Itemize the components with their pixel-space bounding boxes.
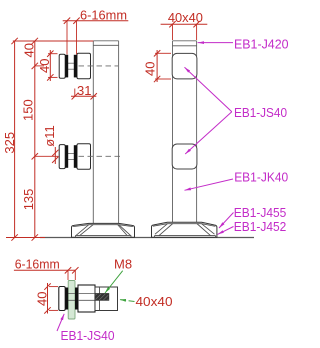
svg-text:135: 135 (21, 189, 36, 211)
clamp 2 centerline (dashed) (79, 155, 122, 157)
ground extension line red left (6, 237, 45, 239)
svg-text:EB1-JS40: EB1-JS40 (61, 328, 115, 343)
dim 40x40 line (161, 23, 208, 25)
dim 6-16mm (bottom) tick right (72, 267, 78, 273)
extension line glass right (76, 21, 78, 55)
dim 31 line (71, 95, 96, 97)
clamp 2 body (77, 144, 91, 170)
dim 40 (bottom) line (47, 283, 49, 314)
ext glass left (bottom) (67, 270, 69, 280)
base left outer (EB1-J452 cover side view) (72, 223, 135, 237)
extension line post top (13, 40, 94, 42)
dim 325 tick top (11, 38, 17, 44)
clamp 1 plate (59, 54, 65, 78)
dim o11 line (54, 147, 56, 164)
dim 40 plate tick top (47, 51, 53, 57)
clamp square 1 (front) (172, 53, 197, 79)
leader EB1-JK40 (185, 179, 234, 190)
dim 6-16mm (bottom) line (14, 269, 75, 271)
clamp 1 gasket right (74, 55, 77, 78)
dim 6-16mm (bottom) tick left (65, 267, 71, 273)
clamp 2 gasket right (74, 145, 77, 168)
base right inner lines (155, 224, 216, 238)
leader EB1-J420 (198, 42, 233, 44)
svg-text:EB1-JK40: EB1-JK40 (234, 170, 288, 185)
dim 40/150 tick mid (32, 63, 38, 69)
base left cover inner parallel (73, 225, 133, 227)
svg-text:6-16mm: 6-16mm (15, 256, 60, 271)
base right cover inner parallel (153, 224, 215, 227)
post right cap line (173, 45, 197, 47)
dim 40 right tick bottom (154, 76, 160, 82)
dim 31 tick right (91, 93, 97, 99)
dim 325 line (14, 41, 16, 238)
post right (front view) (173, 41, 197, 223)
glass pane (top view) (68, 281, 75, 320)
svg-text:40: 40 (37, 59, 52, 73)
dim 40 (bottom) ext top (49, 286, 58, 288)
svg-text:EB1-J420: EB1-J420 (234, 36, 289, 51)
base left inner lines (76, 225, 132, 238)
post left (side view) EB1-JK40 (93, 41, 118, 224)
dim 150 tick bottom (32, 153, 38, 159)
gasket right (top view) (75, 288, 78, 310)
dim 31 ext left (74, 89, 76, 97)
dim 40 right post line (156, 50, 158, 82)
dim 135 line (34, 156, 36, 237)
dim 40x40 ext right (196, 24, 198, 40)
dim 40 right ext bottom (155, 78, 171, 80)
clamp 1 gasket left (65, 55, 68, 78)
dim 40 right ext top (155, 52, 171, 54)
clamp plate (top view) (59, 287, 65, 311)
svg-text:EB1-J455: EB1-J455 (234, 205, 286, 220)
dim 40 clamp plate line (49, 50, 51, 81)
dim 40 plate tick bottom (47, 74, 53, 80)
leader EB1-J452 (218, 227, 234, 235)
svg-text:40: 40 (34, 292, 49, 306)
svg-text:31: 31 (77, 83, 91, 98)
extension clamp2 center (35, 155, 59, 157)
dim 40 (bottom) tick top (44, 283, 50, 289)
svg-text:40: 40 (22, 43, 37, 57)
clamp 2 bolt lines (65, 153, 77, 155)
svg-text:150: 150 (21, 99, 36, 121)
dim 40x40 ext left (172, 24, 174, 40)
M8 bolt hatched (95, 294, 109, 301)
leader M8 (green) (105, 271, 123, 293)
post left cap line EB1-J420 (93, 44, 118, 46)
svg-text:40x40: 40x40 (136, 294, 173, 309)
svg-text:M8: M8 (114, 257, 132, 272)
dim 40 plate ext top (48, 53, 58, 55)
dim 40x40 tick right (193, 21, 199, 27)
clamp 2 gasket left (65, 145, 68, 168)
clamp 1 bolt lines (65, 62, 77, 64)
dim 135 tick bottom (32, 234, 38, 240)
clamp 1 body (77, 53, 91, 79)
clamp 2 plate (59, 145, 65, 169)
bolt lines (top view) (62, 293, 95, 295)
svg-text:EB1-JS40: EB1-JS40 (234, 105, 287, 120)
clamp square 2 (front) (172, 144, 197, 169)
dim 40 tick top (32, 38, 38, 44)
dim 6-16mm tick right (73, 18, 79, 24)
ext glass right (bottom) (74, 270, 76, 280)
dim o11 tick bottom (52, 157, 58, 163)
dim 40 (bottom) tick bottom (44, 307, 50, 313)
dim o11 tick top (52, 150, 58, 156)
leader 40x40 (green) (120, 300, 135, 302)
gasket left (top view) (65, 288, 68, 310)
dim 40 right tick top (154, 50, 160, 56)
svg-text:40: 40 (143, 62, 158, 76)
leader EB1-JS40 (bottom) (57, 314, 64, 331)
dim 325 tick bottom (11, 234, 17, 240)
clamp 1 centerline (dashed) (79, 65, 119, 67)
base right outer (152, 222, 217, 237)
extension clamp1 center (35, 65, 44, 67)
dim 40 (bottom) ext bottom (49, 309, 58, 311)
svg-text:EB1-J452: EB1-J452 (234, 219, 286, 234)
extension line glass left (66, 21, 68, 55)
post wall inner line (99, 287, 101, 311)
dim 40 plate ext bottom (48, 76, 58, 78)
dim 31 tick left (72, 93, 78, 99)
leader EB1-JS40 upper (185, 67, 232, 112)
dim 6-16mm tick left (64, 18, 70, 24)
dim 40x40 tick left (169, 21, 175, 27)
dim 6-16mm (top) line (63, 20, 129, 22)
leader EB1-J455 (219, 213, 234, 229)
svg-text:325: 325 (2, 132, 17, 154)
ground line (40, 237, 254, 239)
dim 40/150 line (34, 41, 36, 156)
post square 40x40 (top view) (95, 287, 118, 311)
svg-text:ø11: ø11 (42, 125, 57, 146)
leader EB1-JS40 lower (185, 112, 232, 154)
clamp body (top view) (78, 285, 95, 312)
